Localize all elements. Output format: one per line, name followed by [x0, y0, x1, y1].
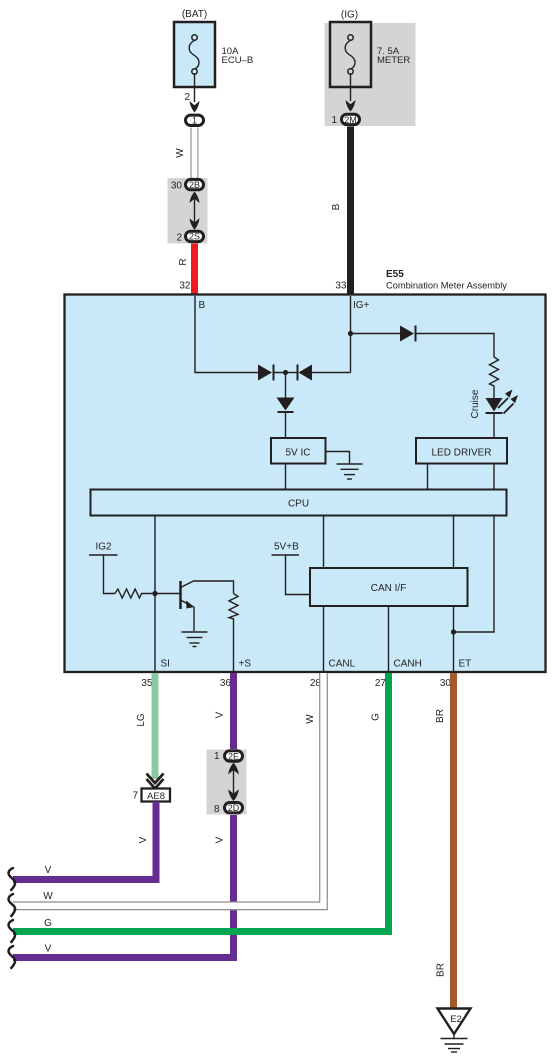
svg-text:(IG): (IG): [341, 10, 358, 21]
svg-text:IG2: IG2: [96, 542, 113, 553]
svg-text:V: V: [215, 711, 226, 718]
svg-text:27: 27: [375, 678, 387, 689]
svg-text:5V+B: 5V+B: [274, 542, 299, 553]
svg-text:1: 1: [192, 116, 197, 126]
svg-text:E2: E2: [450, 1014, 462, 1025]
svg-text:30: 30: [171, 181, 183, 192]
svg-text:30: 30: [440, 678, 452, 689]
svg-text:1: 1: [214, 751, 220, 762]
svg-text:SI: SI: [161, 659, 170, 670]
svg-text:CPU: CPU: [288, 499, 309, 510]
svg-text:2S: 2S: [189, 232, 200, 242]
svg-text:5V IC: 5V IC: [285, 448, 310, 459]
svg-text:CANL: CANL: [329, 659, 356, 670]
svg-text:2: 2: [176, 233, 182, 244]
svg-text:CANH: CANH: [394, 659, 422, 670]
svg-text:METER: METER: [377, 55, 410, 66]
svg-text:V: V: [45, 944, 52, 955]
svg-text:W: W: [175, 148, 186, 158]
svg-text:BR: BR: [436, 963, 447, 977]
svg-text:W: W: [305, 714, 316, 724]
svg-text:IG+: IG+: [353, 300, 370, 311]
svg-text:G: G: [44, 918, 52, 929]
svg-text:7: 7: [132, 791, 138, 802]
svg-text:E55: E55: [386, 269, 404, 280]
svg-text:BR: BR: [435, 709, 446, 723]
svg-text:B: B: [199, 300, 206, 311]
svg-text:ET: ET: [459, 659, 472, 670]
svg-text:G: G: [371, 713, 382, 721]
svg-text:(BAT): (BAT): [182, 9, 207, 20]
svg-text:8: 8: [214, 804, 220, 815]
svg-text:36: 36: [220, 678, 232, 689]
svg-text:V: V: [138, 836, 149, 843]
svg-text:32: 32: [179, 281, 191, 292]
svg-text:35: 35: [141, 678, 153, 689]
svg-text:Combination Meter Assembly: Combination Meter Assembly: [386, 281, 507, 291]
svg-text:LG: LG: [136, 713, 147, 727]
svg-text:B: B: [331, 203, 342, 210]
svg-text:AE8: AE8: [147, 791, 165, 802]
svg-text:2D: 2D: [228, 803, 240, 813]
svg-text:1: 1: [331, 115, 337, 126]
svg-text:R: R: [178, 258, 189, 265]
svg-text:+S: +S: [239, 659, 252, 670]
svg-text:2M: 2M: [344, 115, 357, 125]
svg-text:V: V: [215, 836, 226, 843]
svg-text:2E: 2E: [228, 751, 239, 761]
svg-text:33: 33: [335, 281, 347, 292]
svg-text:V: V: [45, 865, 52, 876]
svg-text:2B: 2B: [189, 180, 200, 190]
svg-text:LED DRIVER: LED DRIVER: [431, 448, 491, 459]
svg-text:Cruise: Cruise: [470, 389, 481, 418]
svg-text:ECU–B: ECU–B: [222, 55, 254, 66]
svg-text:CAN I/F: CAN I/F: [371, 583, 407, 594]
svg-text:W: W: [43, 891, 53, 902]
